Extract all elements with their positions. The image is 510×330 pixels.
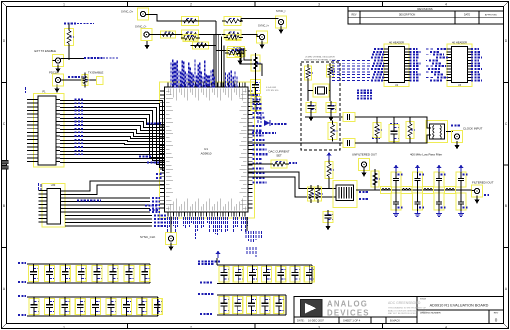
op IC U1 AD9910 yellow outline [160, 82, 255, 218]
net flag above P1 pins [25, 87, 27, 93]
ground arrow below J3 [144, 45, 149, 49]
resistor R9 above U1 [226, 35, 241, 41]
svg-text:REVISIONS: REVISIONS [417, 7, 432, 11]
capacitor CD3 [246, 297, 256, 314]
net label barcode above U1 left [170, 63, 172, 88]
wire SYNC row 2 [149, 34, 221, 36]
svg-text:ADC GREENSBORO: ADC GREENSBORO [388, 301, 421, 305]
resistor R20 shunt pair [308, 187, 315, 201]
cap row A1 rails [27, 263, 150, 265]
ground arrow below J9 [454, 145, 459, 149]
power flag filter node 1 [395, 168, 397, 172]
blue ground filter node 2 [417, 211, 419, 214]
capacitor CA2 [44, 266, 54, 282]
svg-text:0.1uF 0603: 0.1uF 0603 [266, 87, 277, 89]
svg-text:P1: P1 [42, 90, 46, 94]
header U3 left net labels [437, 48, 446, 50]
resistor R7 [228, 47, 245, 55]
ground arrows in osc box [308, 117, 313, 121]
filter shunt capacitor down C35 [413, 193, 423, 210]
wire J6 right [61, 79, 97, 81]
resistor R13 DAC current [271, 160, 287, 168]
capacitor CB7 [121, 299, 131, 315]
cap row B2 left labels [198, 293, 214, 295]
connector J8 SYNC_CLK [166, 233, 177, 245]
cap row A1 left labels [18, 262, 26, 264]
net labels on U1 left wires [147, 122, 161, 124]
svg-text:3: 3 [318, 325, 320, 329]
power flag filter node 2 [417, 168, 419, 172]
border zone ticks left [2, 82, 7, 84]
inductor L1 [381, 187, 392, 194]
revisions table [348, 7, 504, 25]
net label P-ENABLE [64, 22, 77, 24]
capacitor CB5 [91, 299, 101, 315]
title block outline [294, 297, 504, 324]
net label barcode above U1 right [225, 73, 227, 88]
net label bottom center [198, 260, 220, 262]
wire U1 to J8 [170, 216, 172, 232]
IC U1 body [165, 87, 249, 212]
bus entry labels column [75, 99, 84, 101]
connector J10 unfiltered [359, 159, 370, 171]
svg-text:2: 2 [190, 2, 192, 6]
net label at J6 [68, 76, 86, 78]
connector U30 left pins [39, 190, 48, 192]
wire to J7 [241, 35, 259, 37]
capacitor CC3 [247, 267, 257, 283]
net label clock [451, 125, 460, 127]
capacitor CB8 [137, 299, 147, 315]
IC U1 inner pin names right [243, 90, 247, 92]
resistor network RN1a [182, 17, 199, 26]
resistor R22 filter input [371, 171, 379, 187]
transformer T1 [333, 181, 357, 208]
net labels on U1 right pins upper [253, 94, 260, 96]
capacitor CB1 [29, 299, 39, 315]
connector P1 yellow outline [34, 94, 65, 168]
svg-text:TITLE: TITLE [420, 299, 426, 301]
transformer T2 balun [426, 121, 448, 143]
resistor network RN2a [224, 17, 241, 26]
header U2 body [389, 47, 405, 83]
power flag filter node 3 [438, 168, 440, 172]
resistor R8 above U1 [183, 35, 198, 42]
IC U1 left pins [160, 90, 164, 92]
cap row B2 rails [217, 294, 286, 296]
resistor R11 tall [251, 55, 260, 71]
net label refclk [372, 137, 380, 139]
crystal oscillator dashed box [301, 62, 340, 150]
svg-text:UNFILTERED OUT: UNFILTERED OUT [352, 153, 377, 157]
svg-text:DESCRIPTION: DESCRIPTION [399, 13, 416, 16]
wires below U1 left [65, 215, 152, 217]
inductor L2 [401, 187, 412, 194]
border corner diagonals [2, 2, 7, 7]
svg-text:AD9910 R1 EVALUATION BOARD: AD9910 R1 EVALUATION BOARD [430, 304, 489, 308]
wires U1 to T1 [248, 172, 336, 189]
filter shunt capacitor down C34 [391, 193, 401, 210]
capacitor C27 below T1 [323, 212, 333, 223]
svg-text:MAY NOT BE REPRODUCED: MAY NOT BE REPRODUCED [388, 312, 416, 315]
capacitor C25 series [343, 139, 355, 148]
wire SYNC row 1 [146, 15, 216, 22]
border zone ticks bottom [127, 324, 129, 329]
resistor R14 in osc box [305, 66, 312, 80]
net labels below U2 [357, 90, 372, 92]
capacitor CC6 [290, 267, 300, 283]
svg-text:25 MHz CRYSTAL OSCILLATOR: 25 MHz CRYSTAL OSCILLATOR [305, 56, 335, 59]
blue ground filter node 3 [438, 211, 440, 214]
connector J3 SYNC_O- [141, 29, 152, 41]
wire balun to clock jack [446, 131, 453, 133]
header U3 left pins [447, 48, 452, 50]
svg-text:B: B [3, 204, 5, 208]
filter shunt capacitor down C36 [434, 193, 444, 210]
connector U30 net flag [38, 183, 40, 191]
resistor network RN1b [182, 30, 199, 39]
wires into balun [424, 117, 431, 128]
header U2 right pins [405, 48, 410, 50]
capacitor CB4 [75, 299, 85, 315]
connector J11 filtered output [472, 185, 483, 197]
resistor R15 in osc box [327, 65, 334, 77]
header U2 left net labels [374, 48, 384, 50]
wire loop right of U1 [241, 48, 262, 76]
capacitor CB3 [60, 299, 70, 315]
capacitor CD1 [219, 297, 229, 314]
svg-text:REMOVE FOR EXTERNAL CLOCK: REMOVE FOR EXTERNAL CLOCK [304, 58, 337, 61]
capacitor CA3 [60, 266, 70, 282]
filter shunt capacitor up C30 [391, 172, 401, 187]
blue ground filter node 1 [395, 211, 397, 214]
connector U30 yellow outline [42, 184, 65, 228]
IC U1 right pins [248, 90, 252, 92]
header U3 right pins [468, 48, 473, 50]
resistor R1 vertical [65, 29, 74, 46]
IC U1 inner pin names left [166, 90, 170, 92]
vertical wire below U1 right [246, 217, 248, 231]
svg-text:AD9910: AD9910 [201, 152, 212, 156]
cap row A2 rails [27, 296, 158, 298]
svg-text:2: 2 [190, 325, 192, 329]
header U3 yellow outline [447, 44, 472, 87]
IC U1 bottom pins [167, 212, 169, 216]
ADI logo [301, 300, 323, 317]
net label lower stack [246, 247, 248, 254]
connector P1 left pins [27, 99, 38, 101]
header U2 left pins [384, 48, 389, 50]
filter shunt capacitor up C33 [456, 172, 466, 187]
svg-text:B: B [505, 204, 507, 208]
ground arrow below J7 [259, 45, 264, 49]
inductor L4 [445, 187, 456, 194]
resistor R3 small [97, 77, 104, 85]
wire R7 stub [216, 50, 228, 52]
svg-text:B.MACK: B.MACK [390, 319, 400, 323]
resistor R4 [161, 31, 176, 38]
net labels right of T1 [359, 191, 368, 193]
connector J4 SYNC_I [276, 16, 287, 28]
capacitor CA4 [76, 266, 86, 282]
border zone ticks top [127, 2, 129, 7]
net labels right of U30 wires [77, 199, 101, 201]
svg-text:1: 1 [63, 325, 65, 329]
svg-text:400 MHz Low Pass Filter: 400 MHz Low Pass Filter [410, 153, 442, 157]
svg-text:4: 4 [445, 2, 447, 6]
svg-text:DRAWING NUMBER: DRAWING NUMBER [420, 311, 441, 314]
resistor network RN2b [224, 30, 241, 39]
capacitor C20 [251, 80, 261, 94]
border zone ticks right [504, 82, 509, 84]
svg-text:0: 0 [495, 318, 498, 323]
svg-text:DATE:: DATE: [297, 319, 305, 323]
net label barcode below U1 [167, 217, 169, 233]
capacitor CA7 [124, 266, 134, 282]
resistor R21 shunt pair [315, 187, 322, 201]
wire R1 to J5 [68, 24, 70, 29]
svg-text:4: 4 [445, 325, 447, 329]
svg-text:SYNC_CLK: SYNC_CLK [140, 235, 155, 239]
connector P1 body [38, 96, 56, 165]
wire DAC current [248, 163, 271, 165]
header U3 body [452, 47, 468, 83]
resistor R16 in osc box right [328, 123, 337, 140]
connector J5 [53, 55, 64, 67]
connector J7 SYNC_I+ [257, 31, 268, 43]
svg-text:3: 3 [318, 2, 320, 6]
rev box [488, 310, 490, 324]
net label J11 [484, 194, 489, 196]
resistor R18 shunt [406, 122, 414, 139]
cap row B1 rails [217, 264, 312, 266]
data bus wires P1 to U1 [60, 101, 165, 171]
net flag below C21 [257, 112, 259, 124]
wires in osc box [307, 80, 309, 101]
inductor L3 [423, 187, 434, 194]
filter shunt capacitor down C37 [456, 193, 466, 210]
net label TX ENABLE wire [84, 57, 103, 59]
filter main line [356, 189, 470, 191]
capacitor C24 series [343, 113, 355, 122]
svg-text:FILTERED IOUT: FILTERED IOUT [472, 181, 494, 185]
blue ground filter node 4 [460, 211, 462, 214]
resistor R17 shunt [373, 123, 381, 138]
capacitor CB9 [152, 299, 162, 315]
svg-text:REV: REV [494, 312, 499, 314]
svg-text:U30: U30 [51, 184, 56, 187]
header U2 yellow outline [384, 44, 409, 87]
power flag filter node 4 [460, 168, 462, 172]
capacitor CD5 [274, 297, 284, 314]
IC U1 inner pin names top [167, 89, 169, 93]
net labels right of U1 [271, 123, 287, 125]
svg-text:U1: U1 [204, 147, 208, 151]
resistor R10 above U1 [227, 49, 242, 58]
svg-text:X7R 16V 10%: X7R 16V 10% [266, 90, 279, 92]
svg-text:ANALOG: ANALOG [327, 300, 368, 309]
net labels on U1 right pins [253, 125, 262, 127]
arrow below J5 [55, 69, 60, 73]
crystal Y1 [313, 84, 329, 97]
cap row A2 left labels [18, 295, 26, 297]
svg-text:SHEET 1 OF 4: SHEET 1 OF 4 [343, 319, 361, 323]
svg-text:TX ENABLE: TX ENABLE [88, 70, 104, 74]
wire J5 to net label [61, 58, 84, 60]
svg-text:DEVICES: DEVICES [327, 308, 370, 317]
IC U1 inner pin names bottom [167, 207, 169, 211]
connector P1 right pins [56, 99, 60, 101]
capacitor CC4 [262, 267, 272, 283]
wires U30 to U1 area [61, 181, 165, 191]
svg-text:DATE: DATE [464, 13, 471, 16]
capacitor CD4 [260, 297, 270, 314]
capacitor CC2 [233, 267, 243, 283]
wire refclk lower [248, 142, 343, 144]
wire above U1 [192, 45, 216, 47]
capacitor CD2 [233, 297, 243, 314]
ground arrow below C27 [325, 226, 330, 230]
ground arrow below J11 [474, 200, 479, 204]
svg-text:SET: SET [276, 154, 282, 158]
ground arrow below J4 [278, 30, 283, 34]
power flag row B1 [217, 254, 219, 258]
svg-text:16-DEC-2007: 16-DEC-2007 [308, 319, 324, 323]
wire to J4 SYNC_I [241, 18, 278, 20]
net label DAC current [289, 162, 297, 164]
header U3 right net labels [471, 48, 479, 50]
capacitor C23 in osc box [326, 103, 336, 113]
connector J6 [53, 74, 64, 86]
wire refclk upper [305, 116, 343, 118]
svg-text:1: 1 [63, 2, 65, 6]
svg-text:APPROVED: APPROVED [485, 13, 498, 16]
net label right of U1 top [235, 48, 244, 50]
wire R11 to C20 [255, 56, 257, 78]
capacitor CA6 [108, 266, 118, 282]
connector J2 SYNC_O+ [138, 8, 149, 20]
revision marks left margin [2, 161, 9, 164]
arrow on unfiltered stub [361, 173, 366, 177]
capacitor CA8 [140, 266, 150, 282]
capacitor C22 in osc box [306, 103, 316, 113]
capacitor C21 [251, 97, 261, 111]
filter shunt capacitor up C31 [413, 172, 423, 187]
wires to IC top [215, 21, 217, 87]
arrow into P1 top [54, 89, 59, 93]
capacitor C28 left of crystal box [235, 49, 245, 57]
net labels at wire ends [152, 197, 160, 199]
resistor R2 [82, 75, 88, 86]
svg-text:REV: REV [352, 13, 357, 16]
svg-text:SYNC_I+: SYNC_I+ [258, 23, 269, 27]
wire unfiltered to main line [363, 167, 365, 170]
capacitor CB2 [44, 299, 54, 315]
svg-text:CLOCK INPUT: CLOCK INPUT [463, 127, 483, 131]
capacitor CC1 [219, 267, 229, 283]
cap row B1 left labels [198, 263, 214, 265]
capacitor CC5 [276, 267, 286, 283]
capacitor C26 shunt [389, 125, 399, 142]
IC U1 top pins [167, 83, 169, 87]
connector U30 body [47, 189, 61, 225]
connector J9 clock input [452, 131, 463, 143]
svg-text:EXT TX ENABLE: EXT TX ENABLE [35, 49, 57, 53]
svg-text:THIS DRAWING IS THE PROPERTY O: THIS DRAWING IS THE PROPERTY OF [388, 307, 427, 310]
diode D1 blue [264, 120, 270, 126]
svg-text:SYNC_O+: SYNC_O+ [121, 10, 134, 14]
net label stack below U1 center [245, 231, 247, 239]
capacitor CA5 [92, 266, 102, 282]
filter shunt capacitor up C32 [434, 172, 444, 187]
capacitor CA1 [29, 266, 39, 282]
ground arrow below J8 [168, 247, 173, 251]
header U2 right net labels [410, 48, 418, 50]
resistor R5 [193, 42, 209, 49]
svg-text:SYNC_I: SYNC_I [276, 9, 286, 13]
capacitor CC7 [304, 267, 314, 283]
resistor R19 vertical with flag [328, 156, 330, 160]
capacitor CB6 [106, 299, 116, 315]
